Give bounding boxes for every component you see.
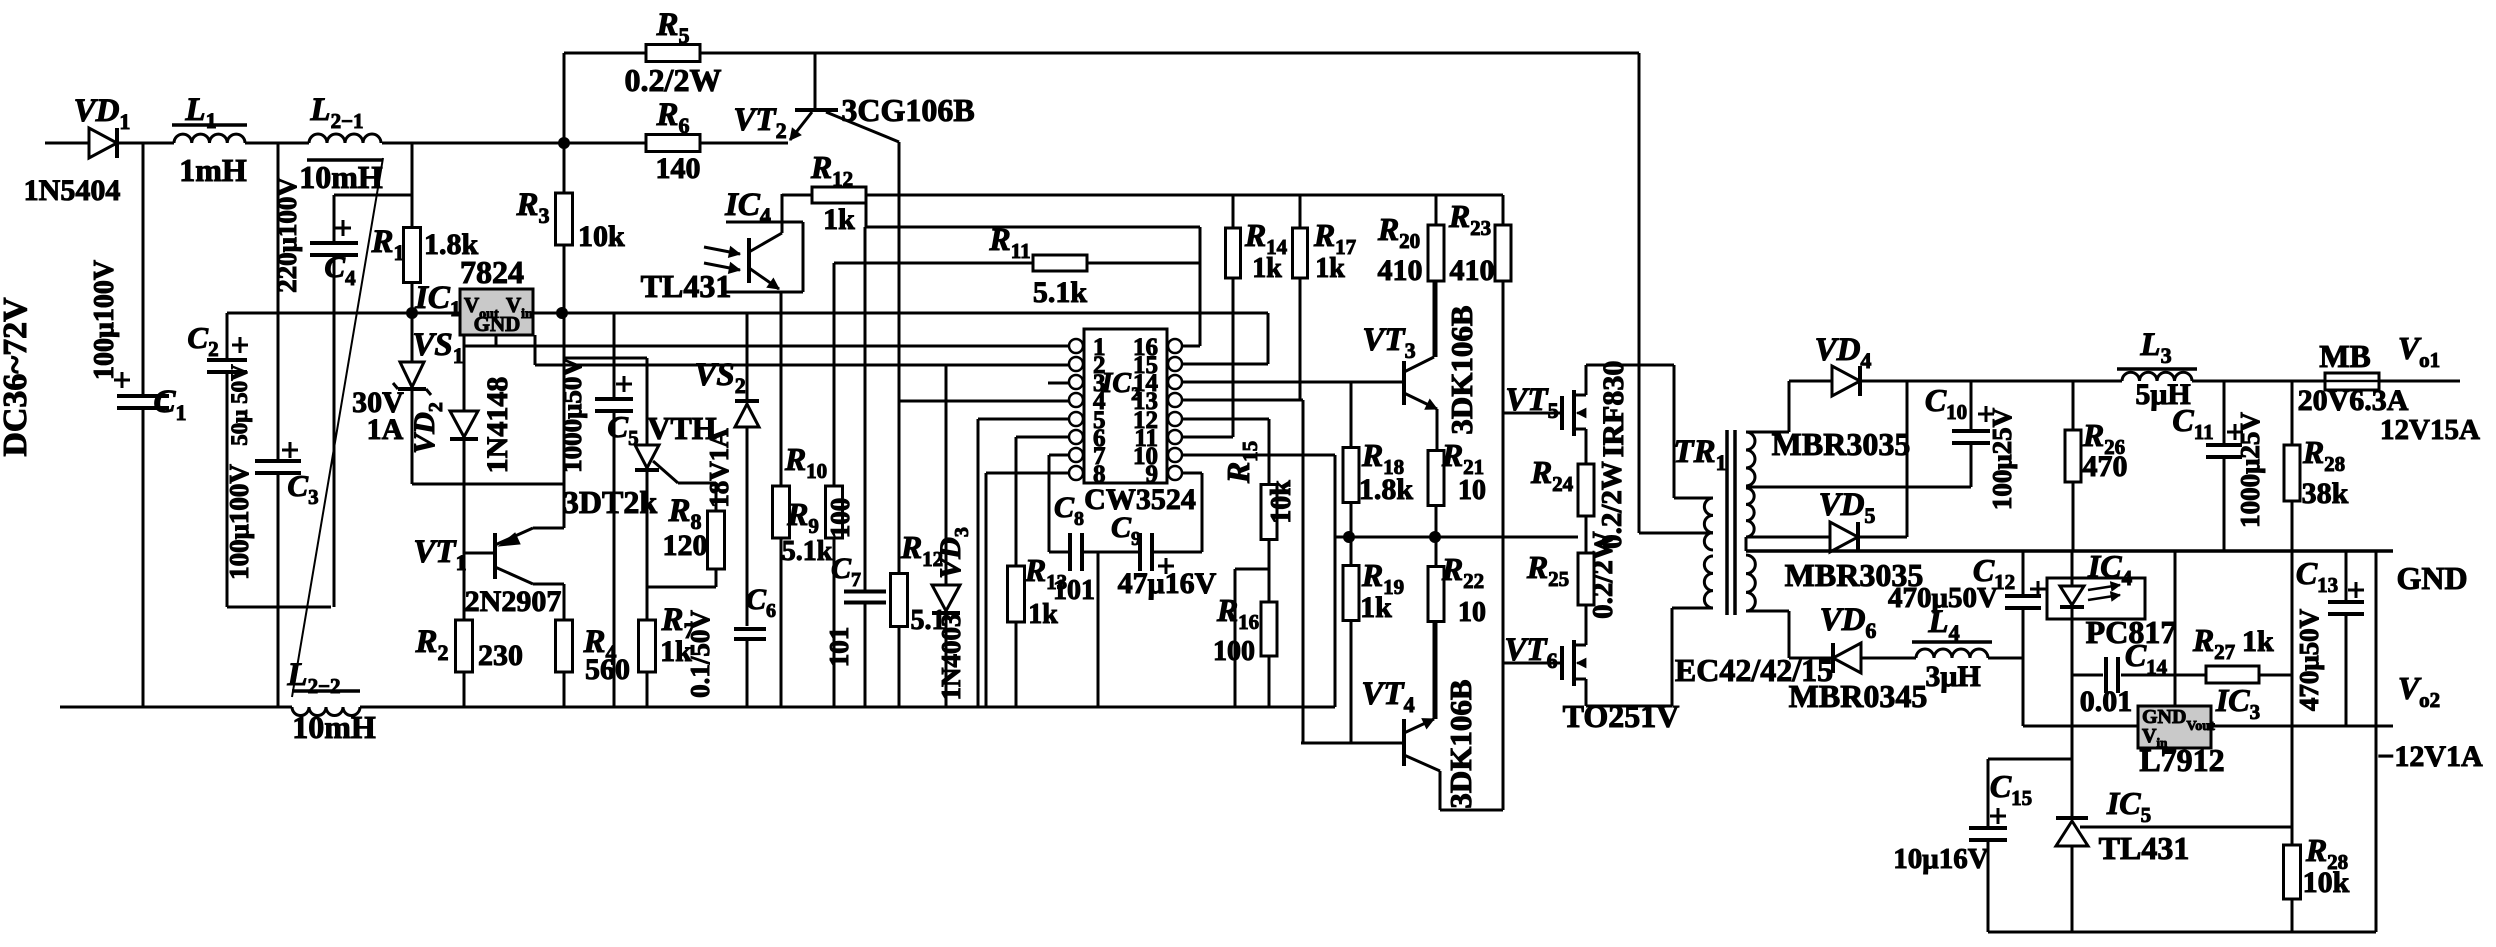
svg-text:1k: 1k bbox=[1252, 253, 1282, 284]
svg-text:10μ16V: 10μ16V bbox=[1893, 843, 1988, 875]
svg-text:100μ25V: 100μ25V bbox=[1987, 407, 2017, 510]
svg-text:1k: 1k bbox=[1315, 253, 1345, 284]
svg-text:−12V1A: −12V1A bbox=[2377, 740, 2483, 773]
svg-text:1mH: 1mH bbox=[179, 152, 247, 188]
svg-text:TL431: TL431 bbox=[641, 268, 732, 304]
svg-text:TL431: TL431 bbox=[2099, 830, 2190, 866]
svg-text:470μ50V: 470μ50V bbox=[1888, 582, 1998, 614]
svg-text:MBR3035: MBR3035 bbox=[1772, 426, 1911, 462]
svg-text:3CG106B: 3CG106B bbox=[841, 92, 974, 128]
svg-text:10mH: 10mH bbox=[292, 709, 376, 745]
svg-text:1N4148: 1N4148 bbox=[481, 377, 514, 474]
svg-text:470: 470 bbox=[2083, 450, 2128, 483]
svg-text:1N4003: 1N4003 bbox=[936, 614, 966, 701]
svg-text:1k: 1k bbox=[1360, 591, 1392, 624]
svg-text:1000μ50V: 1000μ50V bbox=[557, 357, 587, 473]
svg-text:1k: 1k bbox=[823, 203, 855, 236]
svg-text:1N5404: 1N5404 bbox=[24, 174, 121, 207]
svg-text:101: 101 bbox=[1053, 575, 1095, 606]
svg-text:IRF830: IRF830 bbox=[1597, 361, 1630, 458]
svg-text:MB: MB bbox=[2319, 338, 2371, 374]
svg-text:230: 230 bbox=[478, 639, 523, 672]
svg-text:3DT2k: 3DT2k bbox=[563, 484, 657, 520]
svg-text:1k: 1k bbox=[2242, 625, 2274, 658]
svg-text:10k: 10k bbox=[2303, 866, 2350, 899]
svg-text:2N2907: 2N2907 bbox=[465, 585, 562, 618]
svg-text:L7912: L7912 bbox=[2139, 742, 2224, 778]
svg-text:1.8k: 1.8k bbox=[1359, 473, 1414, 506]
svg-text:0.01: 0.01 bbox=[2080, 685, 2133, 718]
svg-text:12V15A: 12V15A bbox=[2380, 414, 2480, 446]
svg-text:GND: GND bbox=[474, 312, 521, 336]
svg-text:10k: 10k bbox=[1266, 480, 1297, 524]
svg-text:18V1A: 18V1A bbox=[704, 428, 734, 508]
svg-text:0.2/2W: 0.2/2W bbox=[625, 62, 722, 98]
svg-text:1A: 1A bbox=[367, 413, 404, 446]
svg-text:120: 120 bbox=[663, 529, 708, 562]
svg-text:5.1k: 5.1k bbox=[1033, 276, 1088, 309]
svg-text:CW3524: CW3524 bbox=[1084, 483, 1196, 516]
svg-text:0.2/2W: 0.2/2W bbox=[1587, 531, 1619, 619]
svg-text:470μ50V: 470μ50V bbox=[2294, 608, 2324, 711]
svg-text:3μH: 3μH bbox=[1925, 660, 1980, 693]
svg-text:10mH: 10mH bbox=[299, 159, 383, 195]
svg-text:3DK106B: 3DK106B bbox=[1444, 305, 1479, 434]
svg-text:10k: 10k bbox=[578, 220, 625, 253]
svg-text:101: 101 bbox=[824, 627, 854, 668]
svg-text:100μ100V: 100μ100V bbox=[224, 464, 254, 580]
svg-text:100μ100V: 100μ100V bbox=[89, 260, 120, 380]
svg-text:410: 410 bbox=[1378, 254, 1423, 287]
svg-text:GND: GND bbox=[2396, 560, 2467, 596]
svg-text:MBR0345: MBR0345 bbox=[1789, 678, 1928, 714]
svg-text:220μ100V: 220μ100V bbox=[272, 177, 302, 293]
svg-text:10: 10 bbox=[1458, 597, 1486, 628]
svg-text:38k: 38k bbox=[2302, 477, 2349, 510]
svg-text:5.1k: 5.1k bbox=[782, 536, 833, 567]
svg-text:560: 560 bbox=[585, 653, 630, 686]
svg-text:3DK106B: 3DK106B bbox=[1443, 679, 1478, 808]
svg-text:7824: 7824 bbox=[460, 254, 524, 290]
svg-text:20V6.3A: 20V6.3A bbox=[2298, 384, 2409, 417]
svg-text:0.1/50V: 0.1/50V bbox=[685, 610, 715, 698]
svg-text:47μ16V: 47μ16V bbox=[1118, 567, 1217, 600]
svg-text:140: 140 bbox=[656, 152, 701, 185]
svg-text:410: 410 bbox=[1450, 254, 1495, 287]
svg-text:TO251V: TO251V bbox=[1563, 698, 1680, 734]
svg-text:50μ 50V: 50μ 50V bbox=[227, 364, 252, 446]
svg-text:10: 10 bbox=[1458, 475, 1486, 506]
svg-text:1000μ25V: 1000μ25V bbox=[2235, 412, 2265, 528]
svg-text:DC36~72V: DC36~72V bbox=[0, 297, 34, 457]
svg-text:100: 100 bbox=[825, 498, 855, 539]
